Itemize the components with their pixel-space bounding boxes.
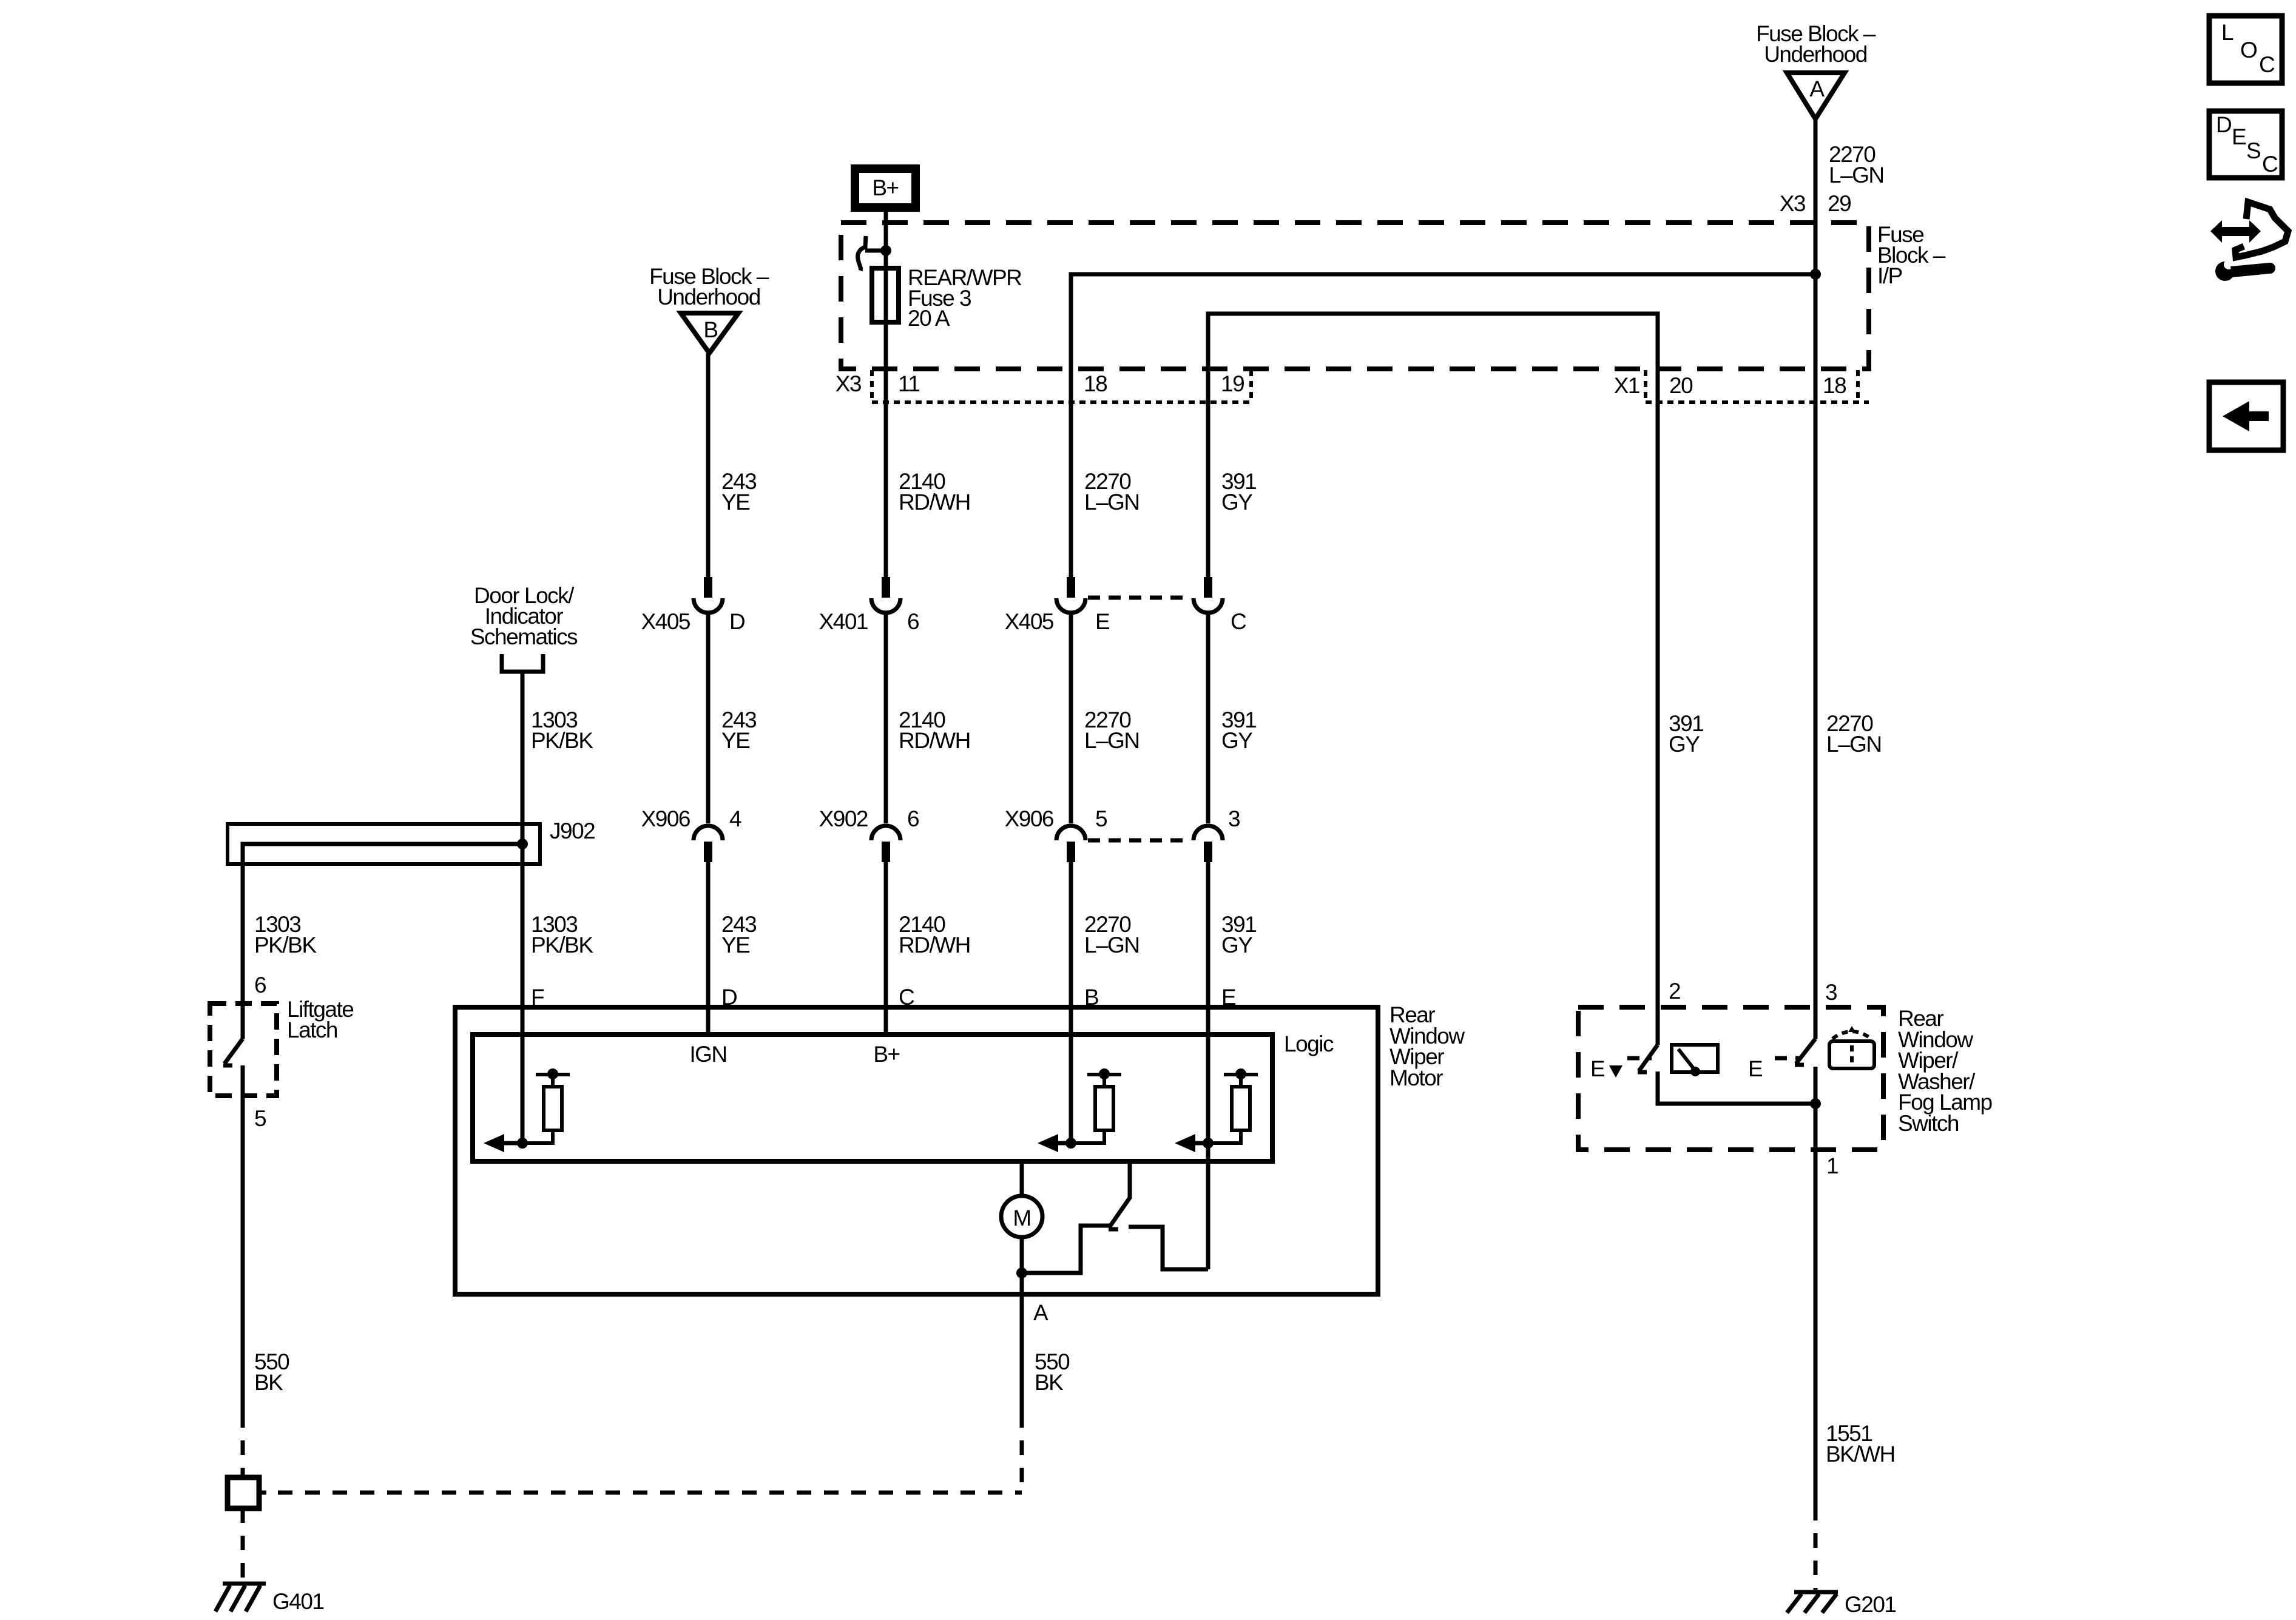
svg-text:B: B: [703, 317, 717, 342]
wiper switch blade pin 2: [1638, 1045, 1658, 1072]
svg-text:L–GN: L–GN: [1084, 728, 1140, 753]
svg-text:X405: X405: [641, 609, 690, 634]
dashed wire below square: [241, 1508, 245, 1581]
dashed jumper horizontal: [278, 1491, 1022, 1495]
pull-up resistor 3 with output arrow: [1175, 1068, 1258, 1152]
svg-text:BK: BK: [254, 1370, 283, 1395]
svg-text:GY: GY: [1221, 933, 1252, 957]
svg-text:6: 6: [907, 609, 919, 634]
junction dot on 2270 wire: [1810, 269, 1821, 280]
latch lower contact wire 550 BK: [241, 1065, 245, 1413]
rear window wiper washer fog lamp switch dashed box: [1578, 1007, 1883, 1150]
svg-text:GY: GY: [1221, 490, 1252, 515]
wire branch 2270 L-GN horizontal: [1071, 274, 1815, 577]
svg-text:5: 5: [1095, 806, 1107, 831]
junction dot at fuse feed: [880, 245, 891, 256]
svg-text:PK/BK: PK/BK: [531, 933, 593, 957]
ground G401: [223, 1582, 266, 1586]
connector X405 D symbol: [694, 577, 723, 823]
svg-text:O: O: [2240, 38, 2257, 62]
svg-text:RD/WH: RD/WH: [899, 490, 970, 515]
svg-text:PK/BK: PK/BK: [254, 933, 317, 957]
pull-up resistor 1 with output arrow: [484, 1068, 570, 1152]
svg-text:G401: G401: [272, 1589, 324, 1614]
wire 1303 PK/BK left from J902: [243, 844, 522, 1039]
door lock continuation bracket: [502, 654, 543, 672]
washer switch lower contact: [1814, 1067, 1818, 1104]
connector row X1 dotted line: [1646, 400, 1869, 404]
svg-text:X902: X902: [819, 806, 868, 831]
wire 2140 RD/WH from B+ down through fuse: [884, 212, 888, 577]
svg-text:BK/WH: BK/WH: [1826, 1442, 1895, 1466]
svg-text:L: L: [2221, 20, 2234, 45]
svg-text:J902: J902: [550, 818, 595, 843]
svg-text:A: A: [1809, 76, 1825, 101]
B+ feed box: [855, 169, 916, 208]
svg-text:L–GN: L–GN: [1084, 933, 1140, 957]
park switch blade: [1109, 1161, 1130, 1229]
svg-text:X1: X1: [1614, 373, 1639, 398]
logic box: [473, 1034, 1272, 1161]
wiper switch lower contact: [1658, 1072, 1815, 1104]
sidebar back arrow box: [2209, 382, 2283, 450]
svg-text:Underhood: Underhood: [1764, 42, 1867, 67]
svg-text:5: 5: [254, 1106, 266, 1131]
park switch left contact: [1022, 1226, 1109, 1273]
connector X902 6 symbol: [871, 826, 900, 1034]
sidebar DESC box: [2209, 111, 2282, 178]
svg-text:X401: X401: [819, 609, 868, 634]
svg-text:L–GN: L–GN: [1826, 732, 1882, 757]
svg-text:6: 6: [254, 973, 266, 997]
svg-text:I/P: I/P: [1877, 263, 1902, 288]
junction dot below motor: [1016, 1267, 1027, 1278]
svg-text:3: 3: [1825, 980, 1837, 1005]
pull-up resistor 2 with output arrow: [1038, 1068, 1121, 1152]
wiper icon: [1672, 1045, 1718, 1076]
dashed wire to inline connector: [241, 1413, 245, 1477]
svg-text:YE: YE: [721, 933, 750, 957]
liftgate latch dashed box: [210, 1004, 277, 1096]
fuse REAR/WPR Fuse 3 20A: [872, 268, 899, 322]
svg-text:D: D: [729, 609, 745, 634]
wire 1303 PK/BK from door lock: [521, 672, 525, 1143]
dashed bridge between connectors E and C: [1088, 596, 1191, 600]
svg-text:E: E: [1590, 1056, 1605, 1081]
fuse block I/P dashed box: [841, 223, 1869, 369]
junction dot in switch: [1810, 1098, 1821, 1109]
svg-text:BK: BK: [1035, 1370, 1064, 1395]
svg-text:G201: G201: [1845, 1592, 1896, 1617]
svg-text:E: E: [2232, 124, 2246, 149]
off-page connector triangle B: [681, 313, 738, 353]
svg-text:X906: X906: [641, 806, 690, 831]
ground G201: [1794, 1590, 1838, 1595]
svg-text:GY: GY: [1221, 728, 1252, 753]
connector row X3 dotted line: [872, 400, 1251, 404]
svg-text:C: C: [2262, 152, 2278, 177]
svg-text:Logic: Logic: [1284, 1031, 1334, 1056]
wire 2270 L-GN from triangle A down to switch pin 3: [1814, 119, 1818, 1039]
svg-text:GY: GY: [1669, 732, 1700, 757]
svg-text:Underhood: Underhood: [657, 285, 760, 309]
washer icon: [1829, 1026, 1874, 1068]
dashed wire from motor A: [1020, 1413, 1024, 1493]
svg-text:Motor: Motor: [1389, 1065, 1443, 1090]
svg-text:D: D: [2216, 112, 2231, 137]
svg-text:6: 6: [907, 806, 919, 831]
park switch right contact: [1129, 1227, 1208, 1269]
washer switch blade pin 3: [1795, 1039, 1815, 1065]
inline connector square: [228, 1477, 259, 1508]
dashed bridge between connectors 5 and 3: [1088, 839, 1191, 843]
wire 1551 BK/WH from switch pin 1: [1814, 1104, 1818, 1506]
svg-text:Schematics: Schematics: [470, 624, 578, 649]
dashed wire to G201: [1814, 1506, 1818, 1590]
connector X401 6 symbol: [871, 577, 900, 823]
svg-text:L–GN: L–GN: [1829, 163, 1884, 187]
svg-text:29: 29: [1828, 191, 1851, 216]
svg-text:E: E: [1748, 1056, 1763, 1081]
svg-text:X3: X3: [836, 371, 861, 396]
connector X906 4 symbol: [694, 826, 723, 1034]
sidebar LOC box: [2209, 16, 2282, 83]
svg-text:20 A: 20 A: [908, 306, 950, 331]
svg-text:RD/WH: RD/WH: [899, 728, 970, 753]
svg-text:M: M: [1013, 1206, 1030, 1230]
wire branch 391 GY horizontal: [1208, 314, 1658, 1045]
svg-text:18: 18: [1084, 371, 1107, 396]
svg-text:YE: YE: [721, 490, 750, 515]
connector X405 E symbol: [1056, 577, 1086, 823]
svg-text:20: 20: [1669, 373, 1693, 398]
latch switch blade: [223, 1039, 243, 1065]
svg-text:X906: X906: [1005, 806, 1053, 831]
connector 3 symbol: [1194, 826, 1223, 1269]
sidebar harness routing icon: [2210, 202, 2288, 281]
svg-text:L–GN: L–GN: [1084, 490, 1140, 515]
fuse clip hook: [858, 236, 886, 271]
svg-text:Latch: Latch: [287, 1018, 337, 1042]
rear window wiper motor box: [455, 1007, 1378, 1294]
svg-text:1: 1: [1826, 1153, 1838, 1178]
svg-text:A: A: [1033, 1300, 1048, 1325]
svg-text:18: 18: [1823, 373, 1846, 398]
svg-text:IGN: IGN: [689, 1042, 726, 1067]
motor M: [1020, 1161, 1024, 1196]
svg-text:19: 19: [1221, 371, 1244, 396]
svg-text:11: 11: [898, 371, 919, 396]
svg-text:X405: X405: [1005, 609, 1054, 634]
svg-text:B+: B+: [873, 1042, 899, 1067]
svg-text:YE: YE: [721, 728, 750, 753]
svg-text:3: 3: [1228, 806, 1240, 831]
svg-text:2: 2: [1669, 979, 1680, 1004]
svg-text:X3: X3: [1780, 191, 1805, 216]
svg-text:C: C: [1231, 609, 1246, 634]
svg-text:S: S: [2246, 138, 2260, 163]
splice pack J902: [228, 824, 540, 864]
svg-text:E: E: [1095, 609, 1110, 634]
svg-text:4: 4: [729, 806, 741, 831]
junction dot in J902: [517, 839, 528, 849]
svg-text:C: C: [2259, 52, 2275, 77]
svg-text:RD/WH: RD/WH: [899, 933, 970, 957]
svg-text:Switch: Switch: [1898, 1111, 1959, 1136]
svg-text:B+: B+: [872, 175, 898, 200]
off-page connector triangle A: [1787, 73, 1845, 119]
svg-text:PK/BK: PK/BK: [531, 728, 593, 753]
connector X906 5 symbol: [1056, 826, 1086, 1143]
connector C symbol: [1194, 577, 1223, 823]
wire 243 YE from triangle B: [706, 353, 711, 577]
